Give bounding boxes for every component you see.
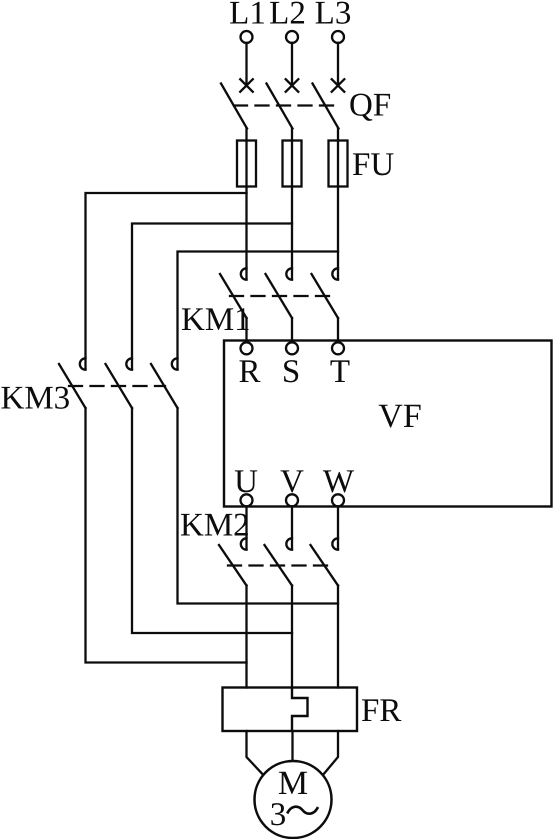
- contactor KM2 pole 3 blade: [311, 545, 339, 586]
- wire QF to FU pole 3: [337, 129, 339, 141]
- svg-text:KM3: KM3: [1, 381, 71, 417]
- wire FR to motor middle: [291, 731, 293, 761]
- terminal W: [332, 494, 344, 506]
- wire KM3 pole 3 down and join: [178, 408, 339, 604]
- wire branch tap 3 to KM3: [178, 252, 339, 370]
- wire KM1 to VF R: [245, 318, 247, 341]
- svg-text:KM1: KM1: [181, 302, 251, 338]
- contactor KM3 pole 1 blade: [59, 364, 86, 408]
- contactor KM1 linkage dashed: [230, 295, 336, 297]
- contactor KM3 pole 3 fixed contact arc: [172, 358, 178, 369]
- wire QF to FU pole 1: [245, 129, 247, 141]
- motor label tilde: [288, 807, 318, 814]
- terminal V: [286, 494, 298, 506]
- wire branch tap 2 to KM3: [132, 224, 292, 370]
- wire FR to motor right: [323, 731, 338, 775]
- svg-text:L3: L3: [315, 0, 352, 32]
- wire FU to KM1 pole 1: [245, 187, 247, 280]
- breaker QF pole 1 contact X: [240, 79, 253, 92]
- contactor KM2 pole 3 fixed contact arc: [332, 538, 338, 549]
- wire FU to KM1 pole 2: [291, 187, 293, 280]
- svg-text:QF: QF: [349, 88, 391, 124]
- terminal L3: [332, 31, 344, 43]
- wire L2 to QF: [291, 43, 293, 85]
- wire VF V to KM2: [291, 507, 293, 550]
- contactor KM2 pole 1 fixed contact arc: [241, 538, 247, 549]
- terminal R: [241, 342, 253, 354]
- terminal U: [241, 494, 253, 506]
- contactor KM1 pole 3 fixed contact arc: [332, 268, 338, 279]
- wire KM2 to FR pole 1: [245, 586, 247, 688]
- contactor KM2 linkage dashed: [228, 564, 334, 566]
- breaker QF pole 2 blade: [267, 84, 293, 129]
- wire FR to motor left: [247, 731, 264, 775]
- contactor KM1 pole 1 blade: [220, 274, 247, 318]
- breaker QF linkage dashed: [234, 104, 334, 106]
- terminal L1: [241, 31, 253, 43]
- svg-text:FR: FR: [361, 693, 401, 729]
- contactor KM2 pole 1 blade: [219, 545, 247, 586]
- wire KM1 to VF T: [337, 318, 339, 341]
- breaker QF pole 3 contact X: [332, 79, 345, 92]
- wire KM1 to VF S: [291, 318, 293, 341]
- wire KM2 to FR pole 2: [291, 586, 293, 688]
- terminal S: [286, 342, 298, 354]
- svg-text:L2: L2: [269, 0, 306, 32]
- contactor KM3 pole 1 fixed contact arc: [80, 358, 86, 369]
- contactor KM3 linkage dashed: [69, 385, 165, 387]
- svg-text:FU: FU: [352, 147, 394, 183]
- contactor KM1 pole 2 blade: [266, 274, 293, 318]
- contactor KM2 pole 2 blade: [265, 545, 293, 586]
- inverter VF box: [224, 341, 552, 507]
- wire L1 to QF: [245, 43, 247, 85]
- svg-text:L1: L1: [229, 0, 266, 32]
- contactor KM2 pole 2 fixed contact arc: [286, 538, 292, 549]
- terminal L2: [286, 31, 298, 43]
- thermal relay FR box: [223, 688, 358, 732]
- breaker QF pole 1 blade: [221, 84, 247, 129]
- breaker QF pole 3 blade: [313, 84, 339, 129]
- wire VF U to KM2: [245, 507, 247, 550]
- contactor KM3 pole 2 fixed contact arc: [126, 358, 132, 369]
- wire KM2 to FR pole 3: [337, 586, 339, 688]
- wire VF W to KM2: [337, 507, 339, 550]
- fuse FU pole 2: [283, 141, 302, 187]
- svg-text:VF: VF: [378, 398, 421, 435]
- fuse FU pole 1: [237, 141, 256, 187]
- wire branch tap 1 to KM3: [86, 193, 247, 369]
- contactor KM3 pole 3 blade: [151, 364, 178, 408]
- svg-text:T: T: [330, 354, 350, 390]
- svg-text:R: R: [238, 354, 260, 390]
- contactor KM1 pole 3 blade: [312, 274, 339, 318]
- svg-text:3: 3: [270, 797, 287, 833]
- wire KM3 pole 2 down and join: [132, 408, 292, 633]
- fuse FU pole 3: [329, 141, 348, 187]
- terminal T: [332, 342, 344, 354]
- wire QF to FU pole 2: [291, 129, 293, 141]
- contactor KM1 pole 1 fixed contact arc: [241, 268, 247, 279]
- wire L3 to QF: [337, 43, 339, 85]
- wire FU to KM1 pole 3: [337, 187, 339, 280]
- contactor KM1 pole 2 fixed contact arc: [286, 268, 292, 279]
- svg-text:KM2: KM2: [180, 508, 250, 544]
- thermal relay FR heater element: [292, 688, 308, 731]
- wire KM3 pole 1 down and join: [86, 408, 247, 663]
- breaker QF pole 2 contact X: [286, 79, 299, 92]
- contactor KM3 pole 2 blade: [106, 364, 133, 408]
- svg-text:S: S: [282, 354, 300, 390]
- motor M circle: [255, 761, 332, 838]
